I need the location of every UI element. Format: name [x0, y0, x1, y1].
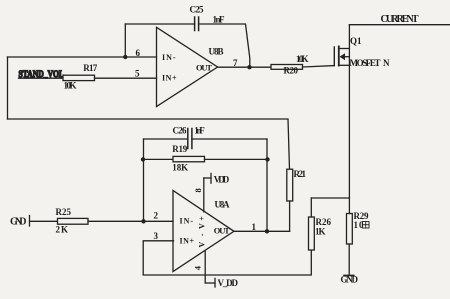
svg-text:V -: V -: [198, 233, 207, 247]
svg-text:IN+: IN+: [162, 74, 177, 83]
wire feedback riser right: [266, 139, 268, 231]
svg-text:R25: R25: [56, 207, 72, 217]
svg-text:IN-: IN-: [180, 217, 194, 226]
node CURRENT: [349, 14, 450, 25]
wire left vertical from IN- down: [7, 57, 9, 119]
junction R19 left: [141, 157, 145, 161]
svg-text:6: 6: [136, 48, 141, 58]
svg-text:OUT: OUT: [214, 225, 230, 235]
resistor R26: [309, 198, 350, 250]
wire U8B out to R20: [218, 66, 271, 68]
junction U8B output: [247, 65, 251, 69]
wire pin 3 loop: [143, 241, 311, 275]
svg-text:Q1: Q1: [350, 36, 362, 46]
transistor Q1: [334, 36, 390, 68]
wire C25 to U8B output: [199, 24, 250, 67]
junction U8A output: [265, 229, 269, 233]
pin 8 VDD: [193, 173, 230, 211]
svg-text:18K: 18K: [172, 163, 188, 173]
resistor R21: [287, 169, 307, 231]
svg-text:R19: R19: [172, 144, 188, 154]
svg-text:R17: R17: [83, 63, 98, 73]
wire R17 to U8B pin 5: [95, 77, 157, 79]
svg-text:10K: 10K: [296, 54, 309, 64]
svg-text:MOSFET: MOSFET: [350, 58, 381, 68]
svg-text:U8B: U8B: [209, 47, 224, 57]
svg-text:U8A: U8A: [215, 200, 231, 210]
op-amp U8A: [173, 191, 234, 272]
pin 4 V_DD: [192, 251, 238, 288]
wire feedback riser from IN- junction: [124, 24, 126, 57]
svg-text:N: N: [383, 58, 390, 68]
svg-text:V_DD: V_DD: [218, 278, 239, 288]
wire to C26 left: [144, 138, 188, 140]
svg-text:1nF: 1nF: [194, 126, 205, 136]
resistor R19: [172, 144, 204, 172]
wire STAND_VOL to R17: [19, 77, 64, 79]
svg-text:VDD: VDD: [214, 175, 230, 185]
svg-text:OUT: OUT: [196, 63, 212, 73]
svg-text:STAND_VOL: STAND_VOL: [19, 69, 65, 79]
junction pin 2: [141, 219, 145, 223]
svg-text:R21: R21: [294, 169, 307, 179]
wire feedback riser left: [143, 139, 145, 221]
svg-text:V+: V+: [198, 216, 207, 229]
svg-text:C26: C26: [173, 126, 188, 136]
svg-text:7: 7: [233, 58, 238, 68]
wire R19 right lead: [205, 158, 268, 160]
svg-text:3: 3: [154, 231, 159, 241]
capacitor C26: [173, 126, 206, 149]
ground: [341, 275, 359, 285]
wire R19 left lead: [144, 158, 174, 160]
svg-text:C25: C25: [190, 5, 205, 15]
svg-text:4: 4: [192, 265, 202, 270]
wire R20 to gate: [303, 66, 335, 67]
wire R25 to U8A pin 2: [88, 220, 173, 222]
wire U8A out to R21 riser: [234, 230, 290, 232]
svg-text:1nF: 1nF: [213, 15, 226, 25]
svg-text:IN-: IN-: [162, 53, 176, 62]
resistor R17: [63, 63, 98, 90]
resistor R25: [56, 207, 89, 235]
svg-text:1K: 1K: [315, 227, 326, 237]
junction R19 right: [265, 157, 269, 161]
svg-text:CURRENT: CURRENT: [381, 14, 419, 25]
wire U8B IN- (pin 6): [8, 56, 157, 58]
resistor R20: [271, 54, 309, 75]
junction on IN- wire: [123, 55, 127, 59]
svg-text:8: 8: [193, 188, 203, 192]
svg-text:R26: R26: [316, 217, 332, 227]
wire R29 to ground: [348, 244, 350, 275]
svg-text:GND: GND: [10, 216, 27, 227]
wire GND to R25: [30, 220, 58, 222]
wire long bottom rail to R21: [8, 119, 290, 169]
op-amp U8B: [157, 27, 224, 106]
capacitor C25: [190, 5, 226, 31]
wire feedback top to C25: [125, 23, 194, 25]
svg-text:IN+: IN+: [180, 237, 195, 246]
svg-text:R20: R20: [284, 65, 299, 75]
svg-text:GND: GND: [341, 275, 359, 285]
wire drain-source vertical: [348, 25, 350, 198]
node GND left: [10, 216, 30, 228]
svg-text:2K: 2K: [56, 225, 69, 235]
svg-text:2: 2: [154, 211, 159, 221]
wire C26 right to riser: [192, 138, 267, 140]
svg-text:10K: 10K: [64, 81, 77, 91]
resistor R29: [347, 198, 370, 244]
svg-text:1: 1: [252, 222, 257, 232]
svg-text:5: 5: [135, 69, 140, 79]
